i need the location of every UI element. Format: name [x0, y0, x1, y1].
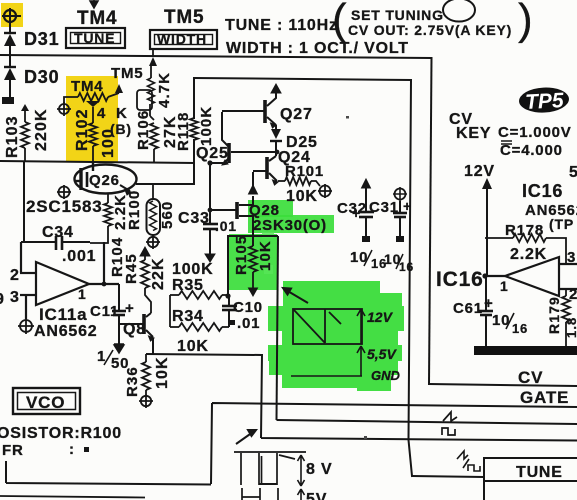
svg-text:D30: D30	[24, 67, 59, 87]
svg-text:C61: C61	[453, 300, 483, 317]
svg-text:10K: 10K	[257, 240, 274, 271]
svg-text:C11: C11	[90, 303, 119, 320]
yellow highlight TM4/R102 block	[66, 76, 118, 162]
waveform glyph sawtooth+pulse (tune row)	[457, 451, 480, 471]
svg-text:16: 16	[399, 260, 414, 274]
annotation arrow to VCO output wire	[283, 288, 308, 303]
svg-text:(B): (B)	[110, 121, 132, 137]
WIDTH box	[150, 30, 217, 49]
capacitor C34 .001	[21, 162, 90, 250]
svg-text:+: +	[352, 205, 361, 221]
thermistor R100 560	[147, 185, 161, 237]
annotation arrow at bottom bus	[236, 430, 256, 444]
transistor Q27	[222, 84, 281, 129]
green highlight 2SK30(O) label	[248, 215, 334, 233]
svg-text:2: 2	[10, 267, 20, 284]
green highlight Q28 label	[248, 200, 293, 217]
svg-text:R101: R101	[285, 163, 324, 180]
wire: R105 box	[228, 236, 577, 424]
resistor R106 27K	[150, 116, 158, 162]
svg-text:9: 9	[0, 291, 5, 308]
capacitor C61 10/16	[479, 277, 493, 347]
svg-text:5V: 5V	[306, 491, 327, 500]
svg-text:C34: C34	[42, 224, 74, 241]
svg-text:1.8: 1.8	[564, 317, 577, 338]
svg-text:R103: R103	[4, 115, 21, 158]
svg-text:TUNE: TUNE	[516, 464, 563, 481]
wire: Q26 collector link	[137, 140, 194, 184]
level arrow 8V	[298, 455, 305, 486]
svg-text:R34: R34	[172, 308, 204, 325]
waveform glyph sawtooth (gate row)	[443, 412, 457, 421]
label 10/16 (C31)	[384, 251, 414, 274]
test point below R36	[139, 395, 153, 409]
svg-text:(: (	[332, 0, 347, 44]
svg-text:+: +	[484, 295, 494, 312]
resistor R34 10K	[170, 323, 229, 331]
label 10/16 (C32)	[350, 249, 387, 271]
green highlight R105 10K	[229, 234, 277, 290]
svg-text:220K: 220K	[33, 108, 50, 151]
VCO box	[13, 388, 80, 414]
trimmer TM5 4.7K	[137, 57, 157, 116]
resistor R118 100K	[190, 118, 198, 140]
svg-text:.01: .01	[237, 315, 260, 332]
resistor R36 10K	[142, 354, 150, 396]
svg-text:AN6562: AN6562	[34, 323, 98, 340]
svg-text:4.7K: 4.7K	[156, 72, 173, 108]
capacitor C10 .01	[222, 293, 237, 327]
svg-text:TUNE : 110Hz: TUNE : 110Hz	[225, 17, 338, 34]
wire WIDTH box to bus	[152, 49, 154, 56]
resistor R45 22K	[140, 247, 151, 313]
node: filled terminal bar	[2, 97, 14, 104]
op-amp IC11a AN6562	[20, 242, 119, 319]
wire: outer right vertical down to CV line	[429, 58, 432, 384]
svg-text:R179: R179	[546, 296, 562, 334]
svg-text:TM4: TM4	[77, 8, 117, 29]
waveform square wave (upper train)	[234, 452, 306, 485]
op-amp IC16	[482, 257, 577, 296]
test point TP (top-left)	[2, 8, 21, 24]
transistor Q8	[119, 313, 154, 354]
wire: left rail y162	[0, 161, 194, 163]
svg-text:SET TUNING: SET TUNING	[351, 7, 444, 23]
svg-text:2.2K: 2.2K	[510, 246, 547, 263]
svg-text:1: 1	[500, 278, 509, 294]
svg-text:R105: R105	[233, 235, 250, 275]
svg-text:GATE: GATE	[520, 388, 569, 407]
transistor Q25	[207, 112, 277, 166]
svg-text:12V: 12V	[367, 309, 394, 325]
resistor R102 100	[89, 107, 97, 162]
wire: TP down to D31	[9, 24, 11, 33]
svg-text:C10: C10	[233, 299, 263, 316]
svg-text:KEY: KEY	[456, 125, 491, 142]
svg-text:OSISTOR:R100: OSISTOR:R100	[0, 425, 122, 442]
svg-text:5,5V: 5,5V	[367, 346, 397, 362]
green highlight waveform region	[264, 265, 404, 391]
svg-text:Q25: Q25	[196, 145, 229, 162]
svg-text:R36: R36	[124, 366, 141, 397]
svg-text:560: 560	[159, 201, 176, 229]
svg-text:IC16: IC16	[522, 181, 563, 201]
svg-text:100K: 100K	[198, 106, 215, 146]
svg-text:12V: 12V	[464, 163, 495, 180]
capacitor C31	[393, 187, 407, 242]
test point at Q26	[57, 185, 71, 199]
svg-text:TM5: TM5	[164, 7, 204, 28]
transistor Q24	[253, 156, 278, 185]
svg-text:C33: C33	[178, 210, 210, 227]
svg-text:K: K	[116, 105, 128, 122]
capacitor C11 1/50	[112, 284, 126, 353]
svg-text:22K: 22K	[150, 257, 167, 290]
level arrows 12V / 5.5V / GND	[291, 309, 365, 376]
svg-text:.01: .01	[215, 218, 237, 234]
svg-text:100K: 100K	[172, 261, 213, 278]
TUNE box	[484, 458, 577, 481]
wire: top horizontal bus y56	[0, 55, 431, 58]
svg-text:WIDTH: WIDTH	[157, 31, 207, 47]
transistor Q26 (2SC1583 can)	[75, 162, 137, 195]
resistor R104 2.2K	[90, 193, 112, 243]
diode D31	[4, 33, 16, 66]
wire: Q8 emitter bus	[146, 354, 262, 355]
label TP5	[518, 86, 569, 114]
wire: inner box top y76	[194, 78, 411, 80]
svg-text:+: +	[403, 198, 412, 214]
svg-text:): )	[518, 0, 533, 44]
svg-text:10K: 10K	[177, 338, 209, 355]
test point below op-amp	[18, 318, 34, 334]
svg-text:4: 4	[97, 105, 106, 122]
svg-text:D31: D31	[24, 29, 59, 49]
svg-text:Q27: Q27	[280, 106, 313, 123]
capacitor C32	[358, 179, 374, 242]
svg-text:C=1.000V: C=1.000V	[498, 124, 572, 141]
yellow highlight top-left test point	[1, 3, 23, 27]
level arrow 5V	[298, 489, 305, 500]
svg-text:16: 16	[512, 321, 528, 336]
TUNE box	[66, 28, 125, 48]
test point at TM4	[57, 102, 71, 116]
svg-text:R118: R118	[175, 112, 192, 151]
arrow pointer above TM4	[90, 0, 98, 8]
ground bar (thick)	[474, 346, 577, 355]
test point at R101	[318, 184, 332, 198]
diode D25	[270, 129, 282, 156]
svg-text:1: 1	[78, 286, 87, 302]
svg-text:Q26: Q26	[89, 172, 120, 189]
svg-text:5: 5	[569, 164, 577, 181]
circle mark	[443, 0, 475, 22]
wire: gate bus	[6, 403, 577, 485]
wire CV line	[429, 384, 577, 386]
svg-text:C31: C31	[369, 199, 399, 216]
svg-text:CV OUT: 2.75V(A KEY): CV OUT: 2.75V(A KEY)	[348, 22, 512, 38]
svg-text:GND: GND	[371, 368, 401, 383]
svg-text::: :	[69, 441, 75, 458]
svg-text:WIDTH : 1 OCT./ VOLT: WIDTH : 1 OCT./ VOLT	[226, 40, 409, 57]
svg-text:(TP: (TP	[549, 216, 574, 232]
wire: long vertical V1	[409, 80, 413, 476]
svg-text:3: 3	[567, 249, 576, 266]
svg-text:R45: R45	[123, 253, 140, 284]
waveform square wave (lower train)	[242, 488, 278, 500]
svg-text:TM5: TM5	[111, 65, 143, 82]
wire: tune feed	[412, 476, 484, 477]
svg-text:10K: 10K	[286, 188, 318, 205]
svg-text:IC16: IC16	[436, 268, 484, 291]
svg-text:+: +	[125, 300, 135, 317]
svg-text:3: 3	[10, 289, 20, 306]
FET Q28 2SK30	[208, 172, 258, 246]
svg-text:TP5: TP5	[525, 89, 565, 114]
svg-text:.001: .001	[62, 248, 96, 265]
resistor R179	[562, 289, 570, 347]
wire: emitter bus down and right (bus C)	[261, 354, 577, 441]
scan speck	[346, 116, 349, 119]
svg-text:Q8: Q8	[123, 321, 146, 338]
svg-text:10K: 10K	[154, 356, 171, 389]
svg-text:FR: FR	[2, 442, 24, 459]
svg-text:R106: R106	[135, 110, 152, 150]
svg-text:2SC1583: 2SC1583	[26, 197, 103, 216]
svg-text:R100: R100	[126, 190, 143, 230]
capacitor C33 .01	[203, 163, 218, 262]
resistor R35 100K	[170, 291, 228, 327]
svg-text:R35: R35	[172, 277, 204, 294]
svg-text:IC11a: IC11a	[39, 305, 87, 324]
wire: bottom partial line	[0, 496, 145, 498]
waveform glyph pulse	[442, 428, 455, 435]
svg-text:TUNE: TUNE	[74, 30, 115, 46]
svg-text:R102: R102	[74, 108, 91, 151]
svg-text:8 V: 8 V	[306, 461, 332, 478]
resistor R105 10K	[249, 246, 258, 296]
waveform box (sawtooth)	[293, 309, 362, 344]
wire: R118 top feed	[193, 78, 195, 118]
resistor R103 220K	[21, 104, 29, 162]
test point below 560	[146, 236, 160, 250]
svg-text:VCO: VCO	[26, 393, 65, 412]
trimmer TM4	[64, 78, 123, 107]
svg-text:CV: CV	[518, 368, 543, 387]
resistor R101 10K	[278, 177, 320, 186]
scan speck	[364, 436, 367, 439]
diode D30	[4, 67, 16, 97]
svg-text:2SK30(O): 2SK30(O)	[253, 217, 327, 234]
